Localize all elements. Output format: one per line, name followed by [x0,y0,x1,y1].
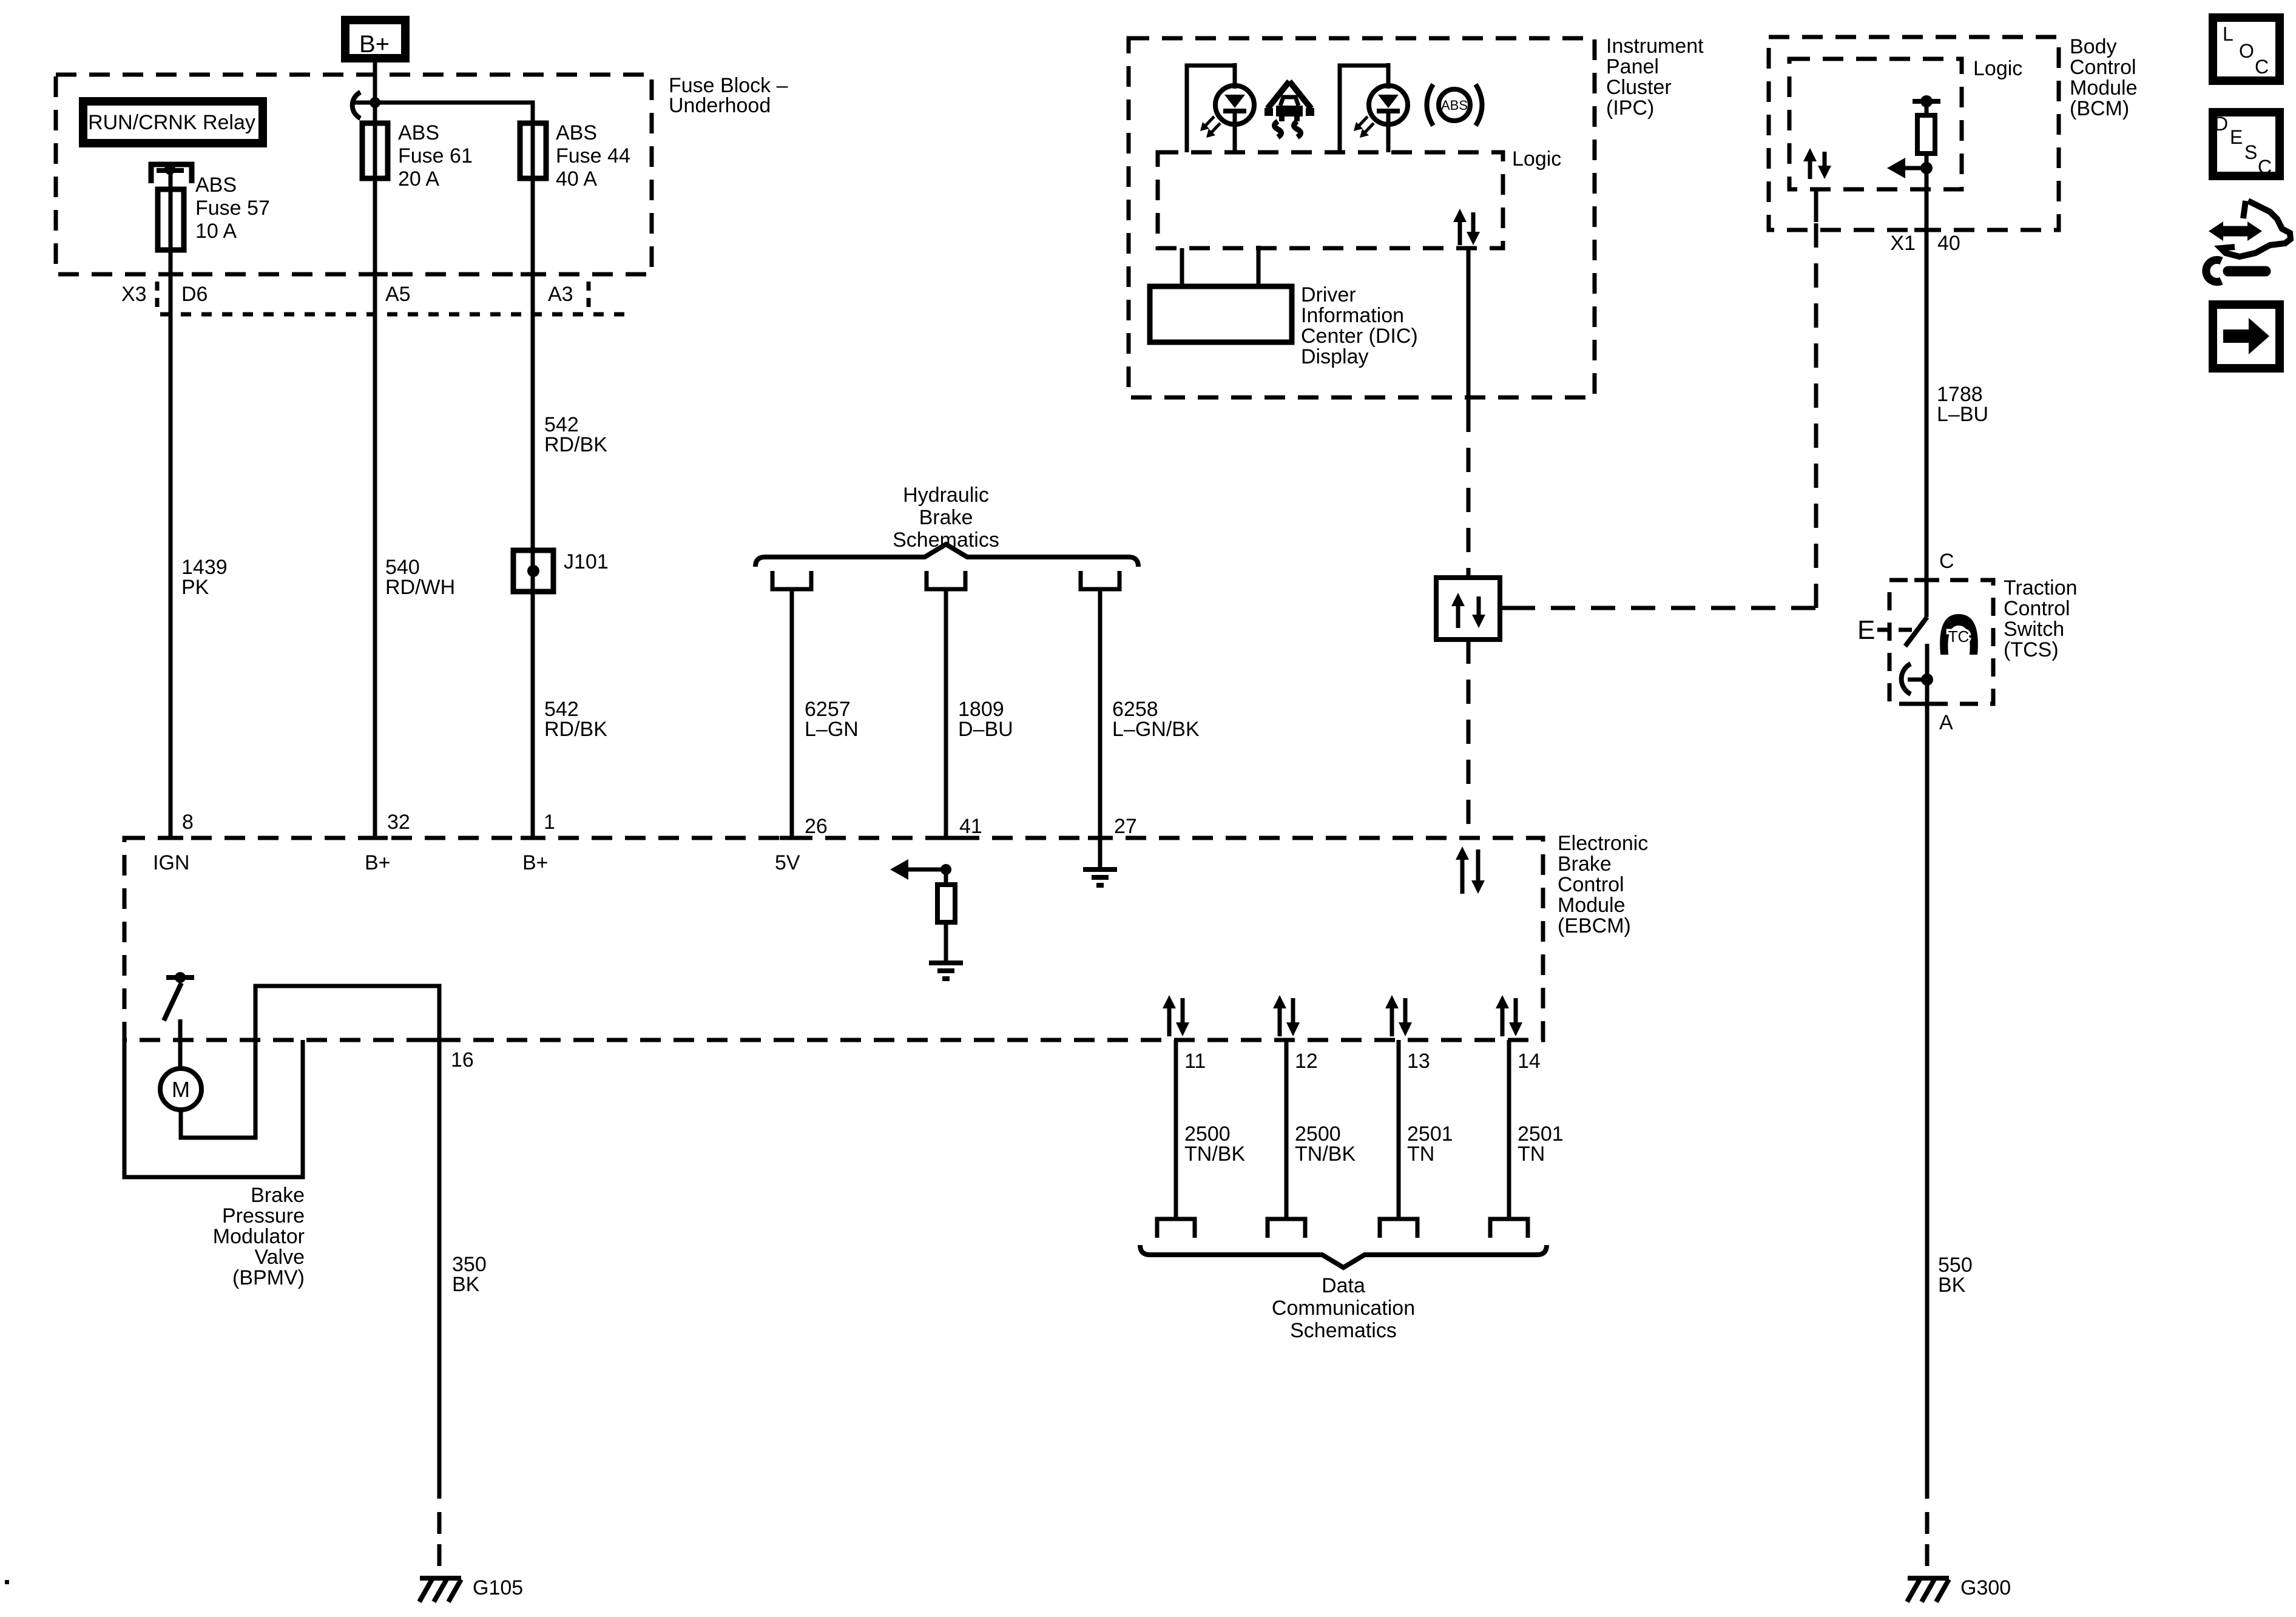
icon DESC box [2213,112,2280,178]
connector to hydraulic brake schematics 1 [772,571,811,589]
svg-text:A5: A5 [385,283,411,306]
svg-text:Schematics: Schematics [893,528,999,552]
svg-text:L: L [2223,23,2234,45]
svg-text:Modulator: Modulator [213,1225,305,1248]
wire DIC stub left [1180,248,1184,286]
svg-text:TN/BK: TN/BK [1184,1143,1245,1166]
svg-text:8: 8 [182,811,194,834]
wire 2501 TN pin 13 [1397,1040,1401,1219]
svg-text:A: A [1939,711,1953,734]
svg-text:Logic: Logic [1512,147,1561,170]
label 2500 TN/BK second [1295,1122,1356,1166]
brace over hydraulic connectors [755,544,1138,567]
wire 542 RD/BK from fuse 44 through J101 to EBCM pin 1 [531,178,535,838]
svg-text:X1: X1 [1890,232,1916,255]
svg-text:Electronic: Electronic [1558,832,1648,855]
wire 550 BK dashed to ground [1925,1512,1930,1576]
wire serial data dashed vertical to BCM [1814,222,1818,608]
IPC logic dashed box [1158,152,1503,248]
svg-text:M: M [172,1077,190,1102]
label ABS Fuse 44 40 A [556,121,630,191]
svg-text:Data: Data [1322,1274,1365,1297]
svg-text:Control: Control [1558,873,1624,896]
wire pin 27 to ground [1098,838,1102,868]
svg-text:Fuse 61: Fuse 61 [398,144,473,167]
wire solid stub into BCM logic [1814,189,1818,222]
tick at BCM connector exit [1914,228,1939,232]
svg-text:C: C [2255,56,2269,78]
fuse F61 ABS Fuse 61 20 A [362,123,388,178]
wire lower contact [1925,644,1930,704]
svg-text:Panel: Panel [1606,55,1659,78]
indicator lamp 1 traction warning [1187,63,1254,152]
serial data arrows in BCM logic [1803,148,1831,179]
ground symbol inside EBCM [929,963,963,979]
switch contact inside EBCM for pump motor [164,972,194,1068]
svg-text:(BCM): (BCM) [2070,97,2129,120]
signal arrow left in BCM [1887,158,1926,178]
connector divider dash right [587,282,591,309]
tick at EBCM pin 27 [1088,836,1113,840]
svg-text:20 A: 20 A [398,167,439,191]
svg-text:TN: TN [1518,1143,1545,1166]
motor M pump [160,1068,201,1110]
wire serial data dashed to BCM horizontal [1511,606,1816,610]
tick at EBCM pin 41 [934,836,959,840]
BPMV solid box [124,1040,303,1177]
battery feed B+ box [345,20,405,58]
wire branch to fuse 44 [375,103,533,123]
svg-text:Switch: Switch [2004,618,2064,641]
wire 6257 L-GN [790,589,794,838]
svg-text:B+: B+ [359,31,390,58]
serial data arrows in IPC logic [1453,209,1480,245]
serial data link box [1436,578,1500,640]
svg-text:B+: B+ [522,851,549,874]
voltage terminal bar in BCM [1913,95,1940,115]
ground G300 [1907,1578,1949,1602]
svg-text:Driver: Driver [1301,283,1356,306]
svg-text:Display: Display [1301,345,1368,368]
svg-text:Control: Control [2070,56,2136,79]
connector to data communication 4 [1490,1219,1528,1238]
node junction on wire 41 inside EBCM [940,864,951,875]
svg-text:G300: G300 [1960,1576,2011,1599]
svg-text:Brake: Brake [919,506,973,529]
label Driver Information Center (DIC) Display [1301,283,1418,368]
svg-text:C: C [2258,156,2272,178]
label Data Communication Schematics [1272,1274,1415,1342]
svg-text:RD/BK: RD/BK [544,433,607,456]
svg-text:L–BU: L–BU [1937,403,1988,426]
wire 2501 TN pin 14 [1507,1040,1511,1219]
label Body Control Module (BCM) [2070,35,2138,120]
fuse F57 ABS Fuse 57 10 A [158,189,184,250]
indicator lamp 2 ABS warning [1340,63,1408,152]
connector to data communication 3 [1380,1219,1417,1238]
svg-text:5V: 5V [775,851,800,874]
svg-text:Schematics: Schematics [1290,1319,1397,1342]
svg-text:Body: Body [2070,35,2117,58]
svg-text:D6: D6 [181,283,208,306]
ground symbol at pin 27 [1083,869,1117,885]
EBCM serial data arrows pair 14 [1496,995,1522,1036]
wire into switch [1925,580,1929,617]
label Hydraulic Brake Schematics [893,484,999,552]
ground G105 [419,1578,461,1602]
label 540 RD/WH [385,556,455,599]
label 6257 L-GN [805,698,859,741]
resistor inside EBCM [937,869,955,961]
wire 6258 L-GN/BK [1098,589,1102,838]
serial data arrows in data link box [1451,593,1485,628]
svg-text:ABS: ABS [556,121,597,144]
svg-text:40: 40 [1937,232,1960,255]
svg-text:RD/WH: RD/WH [385,576,455,599]
svg-text:E: E [1857,615,1875,645]
icon TC tire [1940,614,1978,655]
svg-text:14: 14 [1518,1050,1541,1073]
dashed link from E to blade [1877,628,1913,632]
label 542 RD/BK upper [544,413,607,456]
signal arrow left at pin 41 [890,859,946,880]
svg-text:(TCS): (TCS) [2004,638,2059,661]
svg-text:41: 41 [959,815,982,838]
label Brake Pressure Modulator Valve (BPMV) [213,1184,305,1289]
svg-text:L–GN: L–GN [805,718,859,741]
wire serial data from IPC logic [1467,248,1471,408]
icon LOC box [2213,18,2280,81]
BCM dashed box [1769,37,2059,230]
svg-text:E: E [2230,126,2243,148]
label 1788 L-BU [1937,383,1988,426]
label ABS Fuse 57 10 A [195,174,270,243]
svg-text:PK: PK [181,576,209,599]
svg-text:D: D [2214,113,2228,135]
connector to hydraulic brake schematics 3 [1081,571,1119,589]
relay contact bracket [151,164,192,190]
wire 2500 TN/BK pin 11 [1174,1040,1178,1219]
svg-text:10 A: 10 A [195,220,237,243]
svg-text:B+: B+ [365,851,391,874]
tick at fuse block pin A5 [363,272,388,277]
connector to data communication 2 [1268,1219,1305,1238]
serial data arrows at EBCM top right [1456,846,1485,894]
switch blade TCS [1905,617,1927,646]
svg-text:ABS: ABS [398,121,439,144]
wire 1788 L-BU from BCM to TCS [1925,168,1929,580]
svg-text:Center (DIC): Center (DIC) [1301,325,1418,348]
icon ABS warning lamp [1427,84,1482,126]
svg-text:Module: Module [1558,894,1626,917]
EBCM dashed box [124,838,1543,1040]
connector divider dash left [155,282,160,309]
label Fuse Block - Underhood [669,74,788,117]
label 2501 TN first [1407,1122,1453,1166]
svg-text:Instrument: Instrument [1606,35,1704,58]
label Instrument Panel Cluster (IPC) [1606,35,1704,120]
tick at EBCM pin 16 [427,1038,452,1042]
svg-text:Fuse 57: Fuse 57 [195,197,270,220]
wire 1809 D-BU [944,589,948,838]
wire serial data dashed to data link box [1467,408,1471,578]
EBCM serial data arrows pair 12 [1273,995,1300,1036]
svg-text:11: 11 [1184,1050,1206,1073]
svg-text:BK: BK [452,1273,480,1296]
icon diagnostic arrow and wrench [2206,201,2291,282]
wire 1439 PK from fuse 57 to EBCM pin 8 [169,250,173,838]
resistor pull-up in BCM [1917,115,1935,168]
svg-text:ABS: ABS [1441,98,1468,113]
node junction in BCM logic [1920,162,1933,174]
node TCS contact dot [1921,673,1933,686]
label Electronic Brake Control Module (EBCM) [1558,832,1648,937]
BCM logic dashed box [1789,59,1962,189]
svg-text:RUN/CRNK Relay: RUN/CRNK Relay [88,111,255,134]
node B+ junction dot [370,97,380,108]
svg-text:26: 26 [805,815,828,838]
icon go-to arrow box [2213,305,2280,368]
tick at EBCM pin 1 [521,836,545,840]
label 6258 L-GN/BK [1112,698,1200,741]
svg-text:D–BU: D–BU [958,718,1013,741]
svg-text:13: 13 [1407,1050,1430,1073]
wire from B+ to fuse 61 [373,62,377,123]
DIC display box [1150,286,1292,342]
tick at EBCM pin 26 [780,836,805,840]
fuse block underhood dashed box [56,75,652,274]
splice J101 [513,550,553,592]
svg-text:RD/BK: RD/BK [544,718,607,741]
connector X3 band bottom dotted line [160,312,633,317]
svg-text:12: 12 [1295,1050,1318,1073]
svg-text:Brake: Brake [1558,852,1612,876]
wire DIC stub right [1257,246,1261,286]
tick at TCS pin C [1914,578,1939,582]
label 2500 TN/BK first [1184,1122,1245,1166]
label Traction Control Switch (TCS) [2004,576,2078,661]
svg-text:BK: BK [1938,1274,1966,1297]
svg-text:C: C [1939,550,1954,573]
svg-text:Hydraulic: Hydraulic [903,484,989,507]
tick at TCS pin A [1914,702,1939,706]
svg-text:TN: TN [1407,1143,1434,1166]
EBCM serial data arrows pair 11 [1163,995,1189,1036]
svg-text:X3: X3 [121,283,147,306]
label 550 BK [1938,1254,1973,1297]
relay K RUN/CRNK Relay [83,101,263,143]
svg-text:Module: Module [2070,76,2138,100]
tick at fuse block pin A3 [521,272,545,277]
wire 350 BK dashed to ground [437,1512,442,1576]
svg-text:40 A: 40 A [556,167,597,191]
svg-text:IGN: IGN [153,851,189,874]
link clip to contact [1908,678,1927,682]
svg-text:ABS: ABS [195,174,237,197]
svg-text:(EBCM): (EBCM) [1558,914,1631,937]
svg-text:Brake: Brake [251,1184,305,1207]
label 350 BK [452,1253,487,1296]
svg-text:32: 32 [387,811,410,834]
svg-text:Information: Information [1301,304,1404,327]
label 542 RD/BK lower [544,698,607,741]
label 1809 D-BU [958,698,1013,741]
svg-text:Traction: Traction [2004,576,2078,599]
tick at EBCM pin 8 [158,836,183,840]
svg-text:Communication: Communication [1272,1297,1415,1320]
svg-text:Cluster: Cluster [1606,76,1672,99]
svg-text:TN/BK: TN/BK [1295,1143,1356,1166]
svg-text:(IPC): (IPC) [1606,96,1654,120]
wire 540 RD/WH from fuse 61 to EBCM pin 32 [373,178,377,838]
connector to hydraulic brake schematics 2 [927,571,965,589]
tick at fuse block pin D6 [158,272,183,277]
svg-text:S: S [2244,141,2257,163]
wire stub right of data link box [1500,606,1511,610]
wire from motor through EBCM to pin 16 [181,986,439,1499]
label 2501 TN second [1518,1122,1564,1166]
svg-text:L–GN/BK: L–GN/BK [1112,718,1200,741]
label 1439 PK [181,556,228,599]
page dot bottom left [5,1580,9,1584]
svg-text:G105: G105 [473,1576,523,1599]
svg-text:Pressure: Pressure [222,1204,305,1227]
clip symbol at B+ junction [353,92,370,118]
svg-text:TC: TC [1948,627,1970,646]
fuse F44 ABS Fuse 44 40 A [520,123,546,178]
svg-text:(BPMV): (BPMV) [232,1266,305,1289]
wire serial data dashed from data link box down to EBCM [1467,640,1471,838]
svg-text:A3: A3 [548,283,573,306]
svg-text:J101: J101 [564,550,609,573]
TCS dashed box [1889,580,1993,704]
svg-text:O: O [2239,40,2254,62]
icon traction control slip [1264,81,1314,137]
svg-text:Control: Control [2004,597,2070,620]
wire 550 BK to ground [1925,704,1930,1499]
brace under data communication connectors [1140,1245,1547,1268]
wire 2500 TN/BK pin 12 [1285,1040,1289,1219]
clip symbol at TCS lower contact [1902,664,1911,694]
connector to data communication 1 [1157,1219,1195,1238]
svg-text:Underhood: Underhood [669,94,771,117]
svg-text:Logic: Logic [1973,57,2022,80]
svg-text:1: 1 [544,811,555,834]
IPC dashed box [1129,38,1595,397]
svg-text:16: 16 [451,1048,474,1072]
label ABS Fuse 61 20 A [398,121,473,191]
svg-text:27: 27 [1114,815,1137,838]
svg-text:Valve: Valve [254,1246,305,1269]
svg-text:Fuse 44: Fuse 44 [556,144,630,167]
EBCM serial data arrows pair 13 [1385,995,1412,1036]
tick at EBCM pin 32 [363,836,388,840]
